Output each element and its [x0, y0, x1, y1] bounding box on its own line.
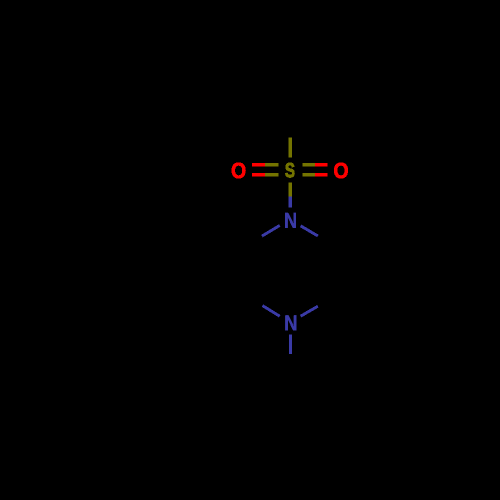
bond S=O right, lower line, S half [302, 173, 315, 177]
bond S=O left, upper line, S half [265, 163, 278, 167]
bond S=O left, lower line, O half [252, 173, 265, 177]
bond S=O right, lower line, O half [315, 173, 327, 177]
bond S-N, S-colored half [289, 183, 292, 197]
bond S=O right, upper line, S half [302, 163, 315, 167]
atom label O right [334, 163, 348, 179]
bond S=O left, lower line, S half [265, 173, 278, 177]
atom label N4 bottom [285, 315, 296, 330]
atom label O left [232, 163, 246, 179]
bond N4-CH2 lower substituent (N half) [289, 334, 292, 354]
ring bond N1-C2 upper-left (N half) [262, 225, 280, 236]
atom label N1 top [285, 213, 296, 228]
atom label S [285, 163, 294, 177]
bond S=O left, upper line, O half [252, 163, 265, 167]
bond S-N, N-colored half [289, 197, 292, 208]
ring bond N4-C5 lower-right (N half) [301, 306, 318, 316]
bond S=O right, upper line, O half [315, 163, 327, 167]
bond S-CH3 upper (S-colored half) [289, 138, 292, 158]
ring bond N1-C6 upper-right (N half) [301, 226, 318, 236]
ring bond N4-C3 lower-left (N half) [263, 306, 280, 317]
